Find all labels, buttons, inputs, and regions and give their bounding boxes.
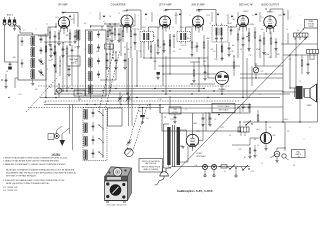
- wire B+ risers bottom: [205, 112, 207, 131]
- svg-text:SWITCH VIEWED FROM: SWITCH VIEWED FROM: [141, 167, 160, 169]
- wire mid verticals 1st IF: [169, 56, 171, 74]
- arrow pilot lamp left: [270, 155, 274, 158]
- wire det vertical x255: [254, 58, 256, 66]
- svg-text:WITH THAT OF THE PART REPLACED: WITH THAT OF THE PART REPLACED.: [6, 175, 37, 178]
- switch contact band 3: [99, 139, 103, 142]
- svg-text:47: 47: [104, 23, 106, 25]
- coil L5 oscillator band 3: [89, 58, 93, 67]
- svg-text:R14: R14: [195, 47, 198, 49]
- svg-text:F1: F1: [261, 163, 263, 165]
- capacitor C3B AVC bypass: [50, 48, 53, 50]
- svg-text:C8: C8: [74, 47, 76, 49]
- resistor R3 screen: [69, 33, 71, 39]
- capacitor C6 converter: [118, 33, 121, 35]
- capacitor C27A: [242, 106, 245, 108]
- resistor R5C osc plate: [130, 31, 132, 37]
- wire V4 plate to T5: [198, 10, 200, 13]
- svg-text:40: 40: [297, 30, 299, 32]
- junction dots extra: [90, 25, 91, 26]
- wire T1 leads: [32, 33, 34, 35]
- pilot lamp I2: [282, 154, 286, 158]
- junction dot converter grid: [109, 23, 110, 24]
- wire AVC bus (dashed): [38, 85, 230, 87]
- wire screen feed horizontal: [158, 65, 232, 67]
- wire V3 plate to T4: [165, 10, 167, 12]
- wire ground bus: [44, 104, 250, 106]
- svg-text:220: 220: [45, 34, 48, 36]
- svg-text:PHONES: PHONES: [218, 89, 226, 91]
- wire AC risers: [204, 164, 206, 166]
- svg-text:20K: 20K: [137, 29, 140, 31]
- svg-text:LOT 7 STEEL 9-46: LOT 7 STEEL 9-46: [3, 187, 17, 189]
- trimmer capacitor band 2: [92, 125, 95, 127]
- wire B+ feed horizontal: [160, 112, 250, 114]
- svg-text:hallicrafters Model S-85: hallicrafters Model S-85: [107, 204, 127, 207]
- svg-text:3. MEASURED VOLTAGES ARE TO C: 3. MEASURED VOLTAGES ARE TO CHASSIS UNLE…: [3, 163, 66, 166]
- trimmer capacitor padder osc B: [115, 59, 118, 61]
- svg-text:.1: .1: [35, 29, 36, 31]
- svg-text:R6: R6: [54, 47, 56, 49]
- wire T5 to V5 grid: [228, 26, 237, 28]
- box tuning condenser outline: [108, 108, 123, 126]
- capacitor C3 screen bypass: [74, 35, 77, 37]
- svg-text:1600: 1600: [108, 49, 112, 51]
- ground lug triangle: [60, 140, 66, 146]
- svg-text:SWITCH S1 SHOWN IN: SWITCH S1 SHOWN IN: [142, 161, 161, 163]
- wire B+ chassis step: [196, 130, 240, 132]
- wire osc link y80: [100, 79, 116, 81]
- wire bus B+ line: [55, 90, 283, 92]
- trimmer capacitor band 4: [40, 71, 43, 73]
- wire V1 grid lead: [48, 26, 56, 28]
- wire converter vertical drops: [112, 44, 114, 56]
- resistor R2 cathode: [58, 33, 60, 39]
- phone jack J1 (panel rear view): [216, 72, 229, 85]
- junction dots converter: [120, 25, 121, 26]
- trimmer capacitor osc 4: [97, 73, 100, 75]
- svg-text:C13: C13: [213, 51, 216, 53]
- dashed gang line tuning capacitor 1: [127, 105, 140, 149]
- coil L8 band switch section 3: [84, 137, 87, 147]
- wire T3 bottom drops: [143, 42, 145, 59]
- wire plug to transformer: [162, 167, 164, 169]
- potentiometer RF gain R31: [56, 88, 61, 93]
- svg-text:LOT 7 STEEL 9-52: LOT 7 STEEL 9-52: [3, 190, 17, 192]
- svg-text:B+: B+: [244, 107, 246, 109]
- antenna terminal A2: [8, 22, 11, 25]
- svg-text:3-30: 3-30: [18, 94, 21, 96]
- bandswitch shaft circle S1: [125, 148, 133, 156]
- resistor R18 grid 6K6: [263, 38, 265, 44]
- switch arrows band coils A2: [39, 60, 43, 64]
- wire V6 plate to output transformer: [269, 9, 271, 13]
- wire bus extra y88.5: [58, 88, 204, 90]
- svg-text:6K6: 6K6: [273, 135, 276, 137]
- note box switch positions: [139, 159, 163, 173]
- svg-text:L4: L4: [51, 59, 53, 61]
- svg-text:.005: .005: [260, 29, 263, 31]
- wire chassis step: [161, 113, 163, 131]
- wire antenna lead down: [4, 25, 6, 62]
- capacitor C19 cathode bypass: [275, 41, 278, 43]
- AC plug P1: [160, 172, 169, 176]
- capacitor C6B mixer: [111, 32, 114, 34]
- junction dots on buses: [62, 90, 63, 91]
- coil L2C antenna band 4: [31, 70, 35, 79]
- arrow to candohm note box: [297, 29, 304, 37]
- resistor strip candohm section C: [238, 127, 249, 132]
- capacitor C17 coupling: [259, 39, 262, 41]
- antenna terminal G: [13, 22, 16, 25]
- coil L1 antenna band 1: [31, 37, 35, 46]
- note box dial lamps: [292, 150, 306, 158]
- dashed gang line RF tuning capacitor 2: [105, 50, 120, 110]
- wire bus IF B+ vertical: [207, 56, 209, 78]
- resistor R16 plate load V5: [254, 32, 256, 38]
- svg-text:2ND IF AMP: 2ND IF AMP: [191, 4, 205, 7]
- dashed gang line tuning capacitor 2: [134, 105, 148, 149]
- wire long diagonal arrow to resistor strip: [170, 37, 307, 178]
- wire output transformer primary riser: [289, 55, 291, 88]
- svg-text:150: 150: [153, 36, 156, 38]
- capacitor C5B coupling: [71, 49, 74, 51]
- wire audio drops: [263, 52, 265, 66]
- svg-text:R26: R26: [269, 57, 272, 59]
- wire strip B leads: [309, 54, 311, 61]
- svg-text:CONVERTER: CONVERTER: [111, 4, 126, 7]
- trimmer capacitor padder osc A: [106, 59, 109, 61]
- switch S1 wafer arc: [124, 149, 133, 154]
- capacitor C16 AVC: [242, 37, 245, 39]
- capacitor C5 osc grid: [109, 29, 112, 31]
- resistor R21 output screen: [301, 60, 303, 66]
- svg-text:.01: .01: [240, 49, 242, 51]
- svg-text:5Y3GT: 5Y3GT: [197, 153, 204, 155]
- svg-text:10: 10: [286, 29, 288, 31]
- tube V6 6K6GT audio output: [264, 16, 276, 28]
- svg-text:RECTIFIER: RECTIFIER: [197, 156, 207, 158]
- coil L6 band switch section 1: [84, 110, 87, 120]
- switch contact band 2: [99, 125, 103, 128]
- svg-text:LINE: LINE: [173, 109, 176, 111]
- terminal strip box: [74, 90, 85, 96]
- wire T2 bottom: [77, 40, 79, 46]
- wire converter plate: [126, 10, 128, 12]
- wire into bank A: [13, 61, 18, 63]
- shield box oscillator coil bank: [86, 30, 107, 96]
- trimmer capacitor padder osc C: [124, 59, 127, 61]
- svg-text:STRIP: STRIP: [309, 26, 315, 28]
- wire V1 plate to T2: [62, 13, 64, 15]
- svg-text:S1B: S1B: [35, 89, 38, 91]
- svg-text:C11: C11: [139, 51, 142, 53]
- dashed gang line antenna section: [26, 77, 58, 112]
- svg-text:6K6GT: 6K6GT: [267, 12, 274, 14]
- label padder box: [105, 44, 114, 49]
- wire controls to bus: [58, 84, 60, 88]
- wire heater bus (dashed): [45, 100, 240, 102]
- svg-text:10: 10: [257, 145, 259, 147]
- capacitor C14 detector: [230, 29, 233, 31]
- trimmer capacitor band 1: [92, 112, 95, 114]
- svg-text:.05: .05: [6, 71, 8, 73]
- svg-text:1600 KC: 1600 KC: [71, 63, 78, 65]
- resistor R10 cathode 2nd IF: [191, 42, 193, 48]
- trimmer capacitor osc 2: [97, 46, 100, 48]
- svg-text:SEL REC: SEL REC: [76, 93, 83, 95]
- wire tube pin drops: [60, 28, 62, 32]
- svg-text:VALUES AND TOLERANCES GIVEN AR: VALUES AND TOLERANCES GIVEN ARE NOMINAL …: [6, 169, 75, 172]
- coil L7 band switch section 2: [84, 123, 87, 133]
- svg-text:100: 100: [232, 45, 235, 47]
- svg-text:100: 100: [84, 23, 87, 25]
- capacitor C22 output: [307, 63, 310, 65]
- resistor R19 cathode 6K6: [270, 38, 272, 44]
- capacitor C7B padder: [134, 33, 137, 35]
- left edge capacitor C31: [5, 79, 8, 81]
- wire T7 frame: [163, 124, 165, 168]
- svg-text:L9: L9: [84, 49, 86, 51]
- wire det area horizontal: [232, 65, 240, 67]
- svg-text:P: P: [50, 137, 51, 139]
- IF transformer T5 detector (dashed can): [212, 26, 228, 43]
- wire RF row join: [44, 41, 72, 43]
- tube V4 6SG7 2nd IF amplifier: [192, 16, 203, 27]
- svg-text:.01: .01: [130, 47, 132, 49]
- svg-text:C4: C4: [109, 16, 111, 18]
- resistor R3B screen divider: [66, 48, 68, 54]
- svg-text:T1: T1: [132, 29, 134, 31]
- svg-text:5V: 5V: [185, 109, 187, 111]
- fuse F1: [221, 165, 227, 168]
- shield box antenna coil bank: [18, 35, 46, 80]
- resistor R5B mixer grid: [107, 31, 109, 37]
- arrow pilot lamp right: [286, 158, 289, 161]
- resistor R4 osc grid leak: [114, 29, 116, 35]
- capacitor C26B filter electrolytic: [209, 117, 212, 119]
- svg-text:RF AMP: RF AMP: [59, 4, 68, 7]
- wire staircase to power: [170, 107, 240, 109]
- wire right horizontal y55: [283, 54, 318, 56]
- svg-text:47K: 47K: [211, 49, 214, 51]
- resistor R11 screen 2nd IF: [203, 42, 205, 48]
- svg-text:L5: L5: [46, 69, 48, 71]
- capacitor C26A filter electrolytic: [202, 117, 205, 119]
- svg-text:6SB7: 6SB7: [122, 11, 128, 13]
- svg-text:150: 150: [187, 38, 190, 40]
- svg-text:250V: 250V: [55, 17, 59, 19]
- resistor strip candohm section A: [294, 33, 309, 37]
- junction dots trap: [59, 65, 60, 66]
- wire heater step line (dashed): [28, 107, 138, 109]
- resistor R1B AVC filter: [45, 46, 47, 52]
- wire heater link V8: [232, 144, 250, 146]
- svg-text:S4: S4: [224, 171, 226, 173]
- wire bus AVC line: [40, 97, 280, 99]
- wire RF drops to buses: [45, 58, 47, 98]
- svg-text:A1 A2 G: A1 A2 G: [7, 14, 14, 17]
- svg-text:T2: T2: [172, 27, 174, 29]
- resistor R5 converter: [122, 31, 124, 37]
- oscillator padder drop: [142, 107, 144, 109]
- switch S2 AC on-off: [230, 165, 235, 170]
- wire audio bus connect: [264, 65, 283, 67]
- trimmer capacitor osc 1: [97, 33, 100, 35]
- wire switch verticals: [55, 52, 57, 72]
- switch contact triangles: [53, 53, 56, 57]
- speaker LS1: [305, 89, 311, 98]
- potentiometer R17 volume control: [253, 67, 259, 73]
- wire det verticals extra: [246, 58, 248, 98]
- trimmer capacitor band 3: [92, 139, 95, 141]
- wire jack leads: [221, 85, 223, 96]
- resistor R6 IF grid return: [150, 46, 152, 52]
- capacitor C12 bypass 2nd IF: [196, 45, 199, 47]
- coil L4 oscillator band 2: [89, 45, 93, 54]
- wire osc stack leads: [89, 41, 91, 45]
- switch S3 standby: [243, 165, 248, 170]
- wire extra short verticals top band: [73, 14, 75, 24]
- wire rectifier output: [192, 113, 194, 134]
- resistor R2B decoupling: [54, 46, 56, 52]
- svg-text:6SG7: 6SG7: [196, 10, 203, 12]
- capacitor C15 IF bypass: [228, 47, 231, 49]
- capacitor C27B: [248, 106, 251, 108]
- wire socket riser: [69, 105, 71, 135]
- wire T4 to V4 grid: [184, 27, 186, 30]
- svg-text:C1: C1: [46, 24, 48, 26]
- wire T3 to V3 grid: [147, 27, 149, 30]
- wire det horizontals y74 y78: [240, 73, 283, 75]
- svg-text:R28: R28: [239, 149, 242, 151]
- coil T2 RF interstage: [77, 30, 80, 40]
- resistor R13 diode load: [221, 46, 223, 52]
- capacitor C4B bypass: [62, 48, 65, 50]
- svg-text:VOL: VOL: [260, 71, 263, 73]
- resistor R1 grid: [49, 32, 51, 38]
- wire bus screen line: [55, 93, 290, 95]
- lamp socket E1: [202, 164, 207, 169]
- svg-text:47: 47: [103, 21, 105, 23]
- svg-text:6.3V: 6.3V: [78, 99, 81, 101]
- wire band stack bus: [102, 109, 104, 158]
- wire audio right horizontal: [281, 43, 318, 45]
- note box wave trap: [67, 56, 80, 66]
- resistor R8 screen 1st IF: [169, 40, 171, 46]
- svg-text:IN34: IN34: [228, 23, 231, 25]
- capacitor C29 V8 cathode: [254, 149, 257, 151]
- volume control R15: [248, 33, 250, 41]
- svg-text:4. SOME UNITS WILL HAVE A GLA: 4. SOME UNITS WILL HAVE A GLASS 5Y3 RECT…: [3, 179, 65, 182]
- tube V1 6SG7 RF amplifier: [58, 17, 69, 28]
- svg-text:T3: T3: [209, 23, 211, 25]
- svg-text:C18: C18: [249, 55, 252, 57]
- tube V3 6SG7 1st IF amplifier: [159, 16, 170, 27]
- IF transformer T4 (dashed can): [177, 32, 191, 42]
- wire pilot leads: [284, 122, 286, 151]
- capacitor C7C trap: [68, 68, 71, 70]
- variable capacitor C1C on gang line: [127, 141, 130, 143]
- svg-text:6SC7: 6SC7: [243, 11, 249, 13]
- svg-text:DET-AVC-AF: DET-AVC-AF: [239, 4, 254, 7]
- svg-text:AUDIO OUTPUT: AUDIO OUTPUT: [261, 4, 280, 7]
- wire B+ horizontal y107: [237, 106, 283, 108]
- wire stage drops to buses: [62, 46, 64, 91]
- svg-text:75V: 75V: [261, 17, 264, 19]
- tube V7 5Y3GT rectifier: [186, 134, 198, 146]
- svg-text:R18: R18: [231, 51, 234, 53]
- wire converter mid verticals: [136, 50, 138, 86]
- svg-text:350V: 350V: [220, 127, 224, 129]
- cabinet perspective drawing: [105, 167, 132, 202]
- wire bank A bottom drop: [15, 77, 18, 79]
- power transformer T7 secondary winding: [177, 127, 180, 165]
- capacitor C30 antenna series: [9, 63, 12, 65]
- tube V5 6SC7 detector-AVC: [237, 15, 248, 26]
- trimmer capacitor osc 3: [97, 60, 100, 62]
- wire converter row: [106, 25, 135, 27]
- dial lamp socket assembly: [48, 134, 54, 140]
- resistor R9 decoupling: [233, 62, 235, 68]
- svg-text:2. CAPACITOR VALUES ARE IN MF: 2. CAPACITOR VALUES ARE IN MFD UNLESS OT…: [3, 160, 60, 163]
- svg-text:X: X: [303, 139, 304, 141]
- ground antenna: [14, 25, 16, 28]
- svg-text:R20: R20: [67, 87, 70, 89]
- resistor R24 V8 grid: [249, 148, 251, 153]
- wire T6 leads: [290, 87, 296, 89]
- svg-text:250V: 250V: [278, 15, 282, 17]
- svg-text:.02: .02: [118, 13, 120, 15]
- svg-text:1ST IF AMP: 1ST IF AMP: [159, 4, 172, 7]
- svg-text:1. RESISTOR VALUES ARE IN OHM: 1. RESISTOR VALUES ARE IN OHMS UNLESS OT…: [3, 156, 68, 159]
- resistor R10B 2nd IF return: [193, 70, 195, 76]
- wire AC line bus: [173, 166, 250, 168]
- svg-text:L1: L1: [23, 30, 25, 32]
- wire right edge vertical: [317, 28, 319, 50]
- capacitor C2B input: [21, 62, 24, 64]
- capacitor C25 line filter: [174, 116, 177, 118]
- svg-text:105V: 105V: [206, 15, 210, 17]
- capacitor C9 bypass 1st IF: [163, 43, 166, 45]
- svg-text:40: 40: [229, 135, 231, 137]
- ground 1st IF cathode blob: [157, 72, 160, 75]
- svg-text:600: 600: [311, 59, 314, 61]
- coil L3 oscillator band 1: [89, 32, 93, 41]
- pilot lamp I1: [274, 151, 280, 157]
- svg-text:40MF: 40MF: [193, 123, 197, 125]
- trimmer capacitor band 4: [92, 152, 95, 154]
- IF transformer T3 (dashed can): [140, 32, 154, 42]
- svg-text:R12: R12: [159, 47, 162, 49]
- svg-text:250: 250: [173, 51, 176, 53]
- shield box band coils (dashed): [83, 108, 107, 161]
- coil L7 oscillator band 5: [89, 85, 93, 94]
- svg-text:C21: C21: [289, 59, 292, 61]
- svg-text:C2: C2: [47, 30, 49, 32]
- wire IF long verticals: [162, 28, 164, 56]
- coil L6 oscillator band 4: [89, 72, 93, 81]
- resistor R23 dropping: [257, 115, 259, 121]
- wire T7 secondary taps: [180, 129, 187, 131]
- coil L2B antenna band 3: [31, 59, 35, 68]
- wire candohm leads: [294, 37, 296, 40]
- capacitor micro symbols texture: [69, 15, 71, 17]
- wire strip C leads: [240, 132, 242, 136]
- junction dot filter: [218, 114, 220, 116]
- svg-text:455 KC: 455 KC: [181, 45, 187, 47]
- wire V2 grid: [104, 23, 120, 25]
- note box filter data: [212, 104, 235, 113]
